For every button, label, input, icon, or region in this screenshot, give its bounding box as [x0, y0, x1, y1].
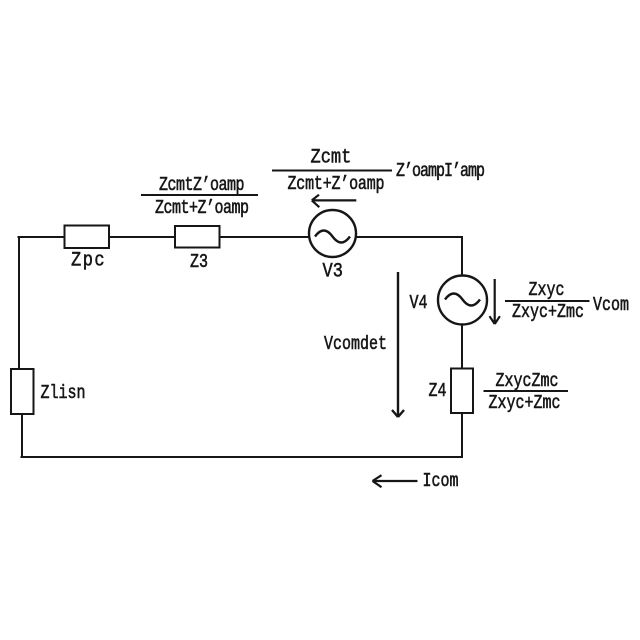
label fraction numerator ZxycZmc	[496, 372, 559, 391]
fraction bar right of Z4	[484, 390, 569, 392]
wire left side upper (Zlisn to top corner)	[18, 236, 20, 369]
label Zlisn	[41, 384, 86, 403]
source V4 circle	[438, 276, 487, 325]
label fraction denominator Zxyc+Zmc (Z4)	[489, 394, 561, 413]
resistor Z3	[175, 226, 220, 248]
wire between V4 and Z4	[461, 324, 463, 369]
wire left side lower (bottom corner to Zlisn)	[21, 414, 23, 458]
resistor Z4	[451, 369, 473, 414]
label Z4	[429, 382, 447, 401]
label Vcom	[593, 296, 629, 315]
wire between Zpc and Z3	[109, 236, 175, 238]
label V4	[410, 294, 428, 313]
label Icom	[423, 472, 459, 491]
label Z'oampI'amp	[396, 162, 484, 181]
wire right side upper (corner to V4)	[461, 236, 463, 276]
source V4 sine	[445, 294, 480, 306]
label Vcomdet	[324, 335, 387, 354]
arrow left Icom	[373, 475, 418, 487]
label V3	[323, 262, 343, 282]
label fraction denominator Zcmt+Z'oamp (V3)	[288, 175, 385, 194]
arrow down Vcomdet	[392, 272, 404, 417]
wire bottom	[21, 456, 464, 458]
label fraction numerator ZcmtZ'oamp	[159, 176, 244, 195]
resistor Zlisn	[11, 369, 34, 414]
label fraction numerator Zcmt	[311, 148, 352, 168]
resistor Zpc	[65, 226, 110, 249]
label Zpc	[71, 251, 106, 271]
arrow above V3 pointing left	[312, 195, 357, 208]
source V3 sine	[315, 231, 350, 243]
fraction bar right of V4	[505, 300, 590, 302]
label fraction denominator Zcmt+Z'oamp	[155, 199, 249, 218]
wire top-left segment	[18, 236, 66, 238]
label fraction denominator Zxyc+Zmc (V4)	[512, 303, 584, 322]
source V3 circle	[309, 210, 356, 257]
label Z3	[190, 253, 208, 272]
label fraction numerator Zxyc	[529, 281, 565, 300]
arrow down right of V4	[490, 279, 500, 324]
fraction bar above Z3	[141, 194, 258, 196]
fraction bar above V3	[272, 170, 392, 172]
wire between Z3 and V3	[220, 236, 311, 238]
wire between V3 and top-right corner	[355, 236, 463, 238]
wire right side lower (Z4 to bottom corner)	[461, 413, 463, 458]
